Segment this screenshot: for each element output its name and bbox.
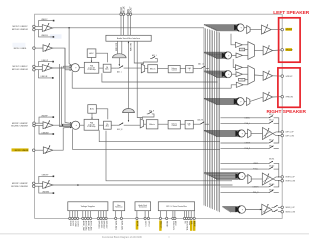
wire G6 output long to right bundle xyxy=(53,184,233,186)
wire G1 output to bundle xyxy=(53,27,204,29)
vcm label box M2 xyxy=(239,78,245,81)
summing mixer MR (right input mix) xyxy=(72,121,80,129)
adc ADC-R xyxy=(104,121,112,129)
pin HPLOUT xyxy=(281,28,284,31)
highlight HPLOUT label xyxy=(285,28,292,31)
svg-text:AVSS_DAC: AVSS_DAC xyxy=(84,221,87,232)
wire to LEFT_LO driver xyxy=(251,133,263,135)
svg-text:LINE2RM: LINE2RM xyxy=(42,132,50,134)
svg-text:MONO_LOP: MONO_LOP xyxy=(286,207,295,209)
wire AGC-R to PGA-R xyxy=(91,113,93,119)
pins audio clock xyxy=(136,211,138,218)
bypass LINE1LM xyxy=(39,70,53,78)
svg-text:LINE2RP: LINE2RP xyxy=(41,116,48,118)
wire route bus v4 xyxy=(65,69,72,71)
wire DAC_L1 to bundle xyxy=(205,68,209,70)
svg-text:SW_R2: SW_R2 xyxy=(269,166,274,168)
svg-text:MIC2LP / LINE2LP: MIC2LP / LINE2LP xyxy=(12,26,28,28)
svg-text:SW_L2: SW_L2 xyxy=(269,120,274,122)
agc AGC-R xyxy=(88,105,97,114)
svg-text:RESET: RESET xyxy=(166,221,168,228)
wire route bus v1 xyxy=(60,65,72,127)
summing mixer HPRCOM xyxy=(236,98,244,106)
svg-text:ADDR: ADDR xyxy=(193,221,196,227)
amp tri M1-A xyxy=(235,42,242,47)
wire PGA-R to ADC-R xyxy=(99,124,104,126)
svg-text:MIC2RP / LINE2RP: MIC2RP / LINE2RP xyxy=(12,123,29,125)
svg-text:SW_R3: SW_R3 xyxy=(269,184,274,186)
wire switch to DAC-L mux xyxy=(124,67,142,69)
svg-text:MIC3R / LINE3R: MIC3R / LINE3R xyxy=(15,150,29,152)
pin MIC2LP/LINE2LP xyxy=(33,25,36,28)
wire MR to PGA-R xyxy=(80,124,84,126)
pin MIC1RM/LINE1RM xyxy=(32,185,35,188)
svg-text:WCLK: WCLK xyxy=(124,6,126,13)
svg-text:HPLCOM: HPLCOM xyxy=(286,49,293,51)
driver HPRCOM xyxy=(263,93,273,102)
svg-text:AVDD_DAC: AVDD_DAC xyxy=(82,221,85,232)
amp tri M2-B xyxy=(232,73,236,75)
svg-text:BIAS_DAC: BIAS_DAC xyxy=(120,221,123,231)
wire driver to HPLOUT pin xyxy=(271,29,281,31)
svg-text:VCM: VCM xyxy=(240,79,243,81)
wire DAC_R1 to bundle xyxy=(205,123,209,125)
svg-text:LINE1LM: LINE1LM xyxy=(41,76,48,78)
op-amp G2 MIC3L input amp xyxy=(43,45,53,52)
pga PGA-L xyxy=(84,62,99,73)
pin HPROUT xyxy=(281,75,284,78)
wire ASBI to left ADC-mux dome xyxy=(117,41,119,54)
dac DAC-L xyxy=(186,65,193,72)
svg-text:IOVDD: IOVDD xyxy=(74,221,76,228)
pin MIC3L/LINE3L xyxy=(33,47,36,50)
svg-text:MIC2RM / LINE2RM: MIC2RM / LINE2RM xyxy=(11,126,28,128)
voltage supplies block xyxy=(68,202,108,211)
amp tri M2-C xyxy=(236,82,243,87)
wire DAC-L data down xyxy=(134,41,143,64)
svg-text:AGC: AGC xyxy=(90,108,95,111)
svg-text:SPI / I²C Serial Control Bus: SPI / I²C Serial Control Bus xyxy=(166,205,187,208)
wire to RIGHT_LO driver xyxy=(251,178,262,180)
svg-text:Bias: Bias xyxy=(117,205,120,207)
svg-text:AGC: AGC xyxy=(89,52,94,55)
wire G1 inputs xyxy=(35,25,42,27)
pin MONO_LOP xyxy=(281,206,284,209)
switch DAC_R1 xyxy=(193,123,198,125)
summing mixer MONO_LO xyxy=(238,206,246,214)
svg-text:SW_R4: SW_R4 xyxy=(269,190,274,192)
wire to HPLOUT driver xyxy=(250,29,261,31)
bypass LINE1RP xyxy=(39,176,53,183)
svg-text:Volume: Volume xyxy=(172,68,177,70)
svg-text:LINE2LM: LINE2LM xyxy=(41,35,48,37)
bypass LINE1RM xyxy=(39,186,53,193)
wire ADC data up into ASBI xyxy=(127,41,129,108)
op-amp G6 MIC1R input amp xyxy=(43,182,53,189)
pin MIC2RP/LINE2RP xyxy=(33,122,36,125)
pin BCLK (top) xyxy=(120,13,122,15)
mux dome right (record mux) xyxy=(123,109,135,113)
svg-text:MIC1RM / LINE1RM: MIC1RM / LINE1RM xyxy=(11,186,28,188)
driver HPLCOM xyxy=(263,46,273,55)
wire PGA-L bypass to outputs xyxy=(102,73,217,82)
red box right speaker xyxy=(278,68,300,107)
svg-text:Audio Serial Bus Interface: Audio Serial Bus Interface xyxy=(117,37,141,40)
driver RIGHT_LO xyxy=(262,173,273,185)
wire left-mix tap to outputs xyxy=(72,72,231,89)
wire right-mix tap to outputs xyxy=(73,129,220,149)
wire bundle verticals xyxy=(203,28,205,206)
bypass LINE2RP xyxy=(39,117,53,123)
svg-text:Effects: Effects xyxy=(150,67,156,70)
svg-text:SW_L4: SW_L4 xyxy=(269,145,274,147)
wire route bus v2 xyxy=(62,67,72,125)
pin RIGHT_LOP xyxy=(281,176,284,179)
pga PGA-R xyxy=(84,119,99,130)
svg-text:SELECT: SELECT xyxy=(159,221,161,229)
svg-text:Volume: Volume xyxy=(172,123,177,125)
svg-text:LINE1LP: LINE1LP xyxy=(42,60,48,62)
driver HPLOUT xyxy=(262,25,272,34)
driver MONO_LO xyxy=(262,204,272,215)
svg-text:MISO: MISO xyxy=(174,221,176,226)
svg-text:DVDD: DVDD xyxy=(69,221,71,227)
svg-text:BIAS_ADC: BIAS_ADC xyxy=(115,221,118,231)
pins bias reference xyxy=(115,211,117,218)
svg-text:MONO_LOM: MONO_LOM xyxy=(286,212,296,214)
wire switch to DAC-R mux xyxy=(124,124,141,126)
wire junction down to left mix xyxy=(69,28,72,66)
wire G5 input xyxy=(35,149,43,151)
wire PGA-L to ADC-L xyxy=(99,67,103,69)
chip boundary box xyxy=(35,14,283,218)
svg-text:Functional Block Diagram of AI: Functional Block Diagram of AIC3106 xyxy=(102,236,142,239)
svg-text:MIC2LM / LINE2LM: MIC2LM / LINE2LM xyxy=(12,29,28,31)
svg-text:LEFT_LOM: LEFT_LOM xyxy=(286,136,295,138)
wire to MONO_LO driver xyxy=(246,209,262,211)
pin MONO_LOM xyxy=(281,210,284,213)
svg-text:DRVSS2: DRVSS2 xyxy=(105,221,107,229)
svg-text:MCLK: MCLK xyxy=(136,221,138,227)
pin DIN (top) xyxy=(127,13,129,15)
pin MIC1LM/LINE1LM xyxy=(33,68,36,71)
wire LEFT_LO to pins xyxy=(273,132,281,134)
summing mixer HPLOUT xyxy=(237,24,244,31)
driver LEFT_LO xyxy=(263,128,273,140)
pin HPRCOM xyxy=(281,95,284,98)
fan ribbon into HPLOUT mix xyxy=(204,24,217,31)
svg-text:MIC1LM / LINE1LM: MIC1LM / LINE1LM xyxy=(12,69,28,71)
op-amp G5 MIC3R input amp xyxy=(43,147,53,154)
summing mixer LEFT_LO xyxy=(238,130,245,137)
wire EFF-L to VC-L xyxy=(158,68,169,70)
svg-text:MIC1RP / LINE1RP: MIC1RP / LINE1RP xyxy=(12,183,29,185)
amp tri M1-B xyxy=(232,54,236,56)
pin LEFT_LOM xyxy=(281,134,284,137)
wire AGC-L out right xyxy=(96,53,108,62)
pins serial control xyxy=(159,211,161,218)
wire G2 input xyxy=(35,47,43,49)
fan ribbon into RIGHT_LO mix xyxy=(204,173,217,180)
pin DOUT (top) xyxy=(129,13,131,15)
faint highlight near LINE1LM xyxy=(50,34,62,38)
fan ribbon into HPROUT mix xyxy=(204,71,217,78)
svg-text:MIC1LP / LINE1LP: MIC1LP / LINE1LP xyxy=(12,66,28,68)
svg-text:L: L xyxy=(189,70,190,72)
mux T1 DAC-L input xyxy=(141,64,144,73)
switch ADC_R xyxy=(111,124,117,126)
pin MIC1RP/LINE1RP xyxy=(32,182,35,185)
footer rule xyxy=(0,233,309,235)
volume control VC-R xyxy=(168,120,180,128)
wire G4 inputs xyxy=(35,122,43,124)
amp tri M2-A xyxy=(235,65,242,70)
svg-text:LINE2LP: LINE2LP xyxy=(41,19,47,21)
mux HPLCOM M1 xyxy=(248,42,255,60)
fan ribbon into HPRCOM mix xyxy=(204,98,217,105)
svg-text:SW_R1: SW_R1 xyxy=(269,158,274,160)
svg-text:Voltage Supplies: Voltage Supplies xyxy=(81,205,95,208)
switch DAC_L1 xyxy=(193,68,199,70)
audio clock generation block xyxy=(135,202,151,211)
svg-text:DOUT: DOUT xyxy=(131,6,133,13)
op-amp G1 MIC2L input amp xyxy=(42,25,52,32)
svg-text:GPIO2: GPIO2 xyxy=(147,221,149,227)
wire G5 output up-route xyxy=(53,127,72,150)
wire VC-R to DAC-R xyxy=(180,123,185,125)
pins voltage supplies xyxy=(69,211,71,218)
agc AGC-L xyxy=(87,49,96,58)
wire driver to HPRCOM pin xyxy=(273,96,281,98)
wire EFF-R to VC-R xyxy=(158,123,168,125)
bias reference block xyxy=(113,202,125,211)
wire right chain to line-outs xyxy=(106,131,232,181)
summing mixer ML (left input mix) xyxy=(71,64,79,72)
faint highlight near MIC3L xyxy=(12,43,25,47)
wire G3 inputs xyxy=(35,65,42,67)
wire T1 to EFF-L xyxy=(145,68,148,70)
pin MIC1LP/LINE1LP xyxy=(33,65,36,68)
svg-text:RIGHT_LOM: RIGHT_LOM xyxy=(286,181,296,183)
wire G4 output to right mix xyxy=(53,124,71,126)
svg-text:DVSS: DVSS xyxy=(71,221,73,227)
highlight MIC3R label xyxy=(12,148,29,151)
pin HPLCOM xyxy=(281,49,284,52)
svg-text:SCLK/SCL: SCLK/SCL xyxy=(172,221,174,230)
wire ML to PGA-L xyxy=(79,67,84,69)
summing mixer RIGHT_LO xyxy=(238,172,245,179)
dac DAC-R xyxy=(185,120,193,128)
adc ADC-L xyxy=(103,64,111,72)
bypass LINE2LP xyxy=(39,21,53,27)
fan ribbon into LEFT_LO mix xyxy=(204,130,217,137)
volume trapezoid LEFT_LO xyxy=(248,129,251,138)
svg-text:SW_L3: SW_L3 xyxy=(269,139,274,141)
op-amp G3 MIC1L input amp xyxy=(42,65,52,72)
effects EFF-R xyxy=(146,120,158,129)
volume trapezoid RIGHT_LO xyxy=(248,174,251,183)
svg-text:HPRCOM: HPRCOM xyxy=(286,97,294,99)
wire stub left mix arrows xyxy=(59,64,61,65)
wire dome-R stem xyxy=(128,113,130,122)
svg-text:GPIO1: GPIO1 xyxy=(144,221,146,227)
bypass LINE2LM xyxy=(39,30,53,37)
svg-text:LEFT SPEAKER: LEFT SPEAKER xyxy=(273,10,309,16)
svg-text:HPLOUT: HPLOUT xyxy=(286,29,292,31)
svg-text:AVDD_ADC: AVDD_ADC xyxy=(87,221,90,232)
wire to HPRCOM driver xyxy=(250,97,263,102)
effects EFF-L xyxy=(148,65,158,73)
wire G2 output down-route xyxy=(53,48,72,123)
audio serial bus interface U-ASBI xyxy=(106,35,151,41)
svg-text:DRVSS1: DRVSS1 xyxy=(100,221,102,229)
svg-text:MIC3L / LINE3L: MIC3L / LINE3L xyxy=(14,48,27,50)
pin WCLK (top) xyxy=(122,13,124,15)
bypass LINE2RM xyxy=(39,126,53,135)
svg-text:DRVDD1: DRVDD1 xyxy=(97,221,99,229)
wire VC-L to DAC-L xyxy=(180,68,186,70)
svg-text:SCL: SCL xyxy=(190,221,192,225)
svg-text:VCM: VCM xyxy=(241,49,244,51)
svg-text:IOVSS: IOVSS xyxy=(77,221,79,228)
svg-text:RIGHT_LOP: RIGHT_LOP xyxy=(286,177,295,179)
spi i2c serial control block xyxy=(158,202,194,211)
driver HPROUT xyxy=(263,71,273,80)
volume trapezoid HPRCOM xyxy=(247,98,250,106)
wire route bus v3 xyxy=(63,65,71,67)
mux dome left (record mux) xyxy=(113,54,127,58)
wire M2 to HPROUT driver xyxy=(254,74,263,77)
wire driver to HPROUT pin xyxy=(273,75,281,77)
pin MIC2LM/LINE2LM xyxy=(33,28,36,31)
pin MIC3R/LINE3R xyxy=(32,149,35,152)
wire ASBI dome second xyxy=(121,41,123,54)
mux T2 DAC-R input xyxy=(140,119,143,128)
wire DAC-R data down xyxy=(137,41,142,119)
vcm label box M1 xyxy=(239,48,244,51)
svg-text:Reference: Reference xyxy=(115,207,122,209)
summing mixer HPLCOM xyxy=(224,52,231,59)
op-amp G4 MIC2R input amp xyxy=(43,122,53,129)
switch MONO_LOM xyxy=(272,210,273,212)
svg-text:LINE1RM: LINE1RM xyxy=(42,192,50,194)
bypass LINE1LP xyxy=(39,62,53,67)
wire PGA-R bypass to outputs xyxy=(99,130,219,142)
pin MIC2RM/LINE2RM xyxy=(33,124,36,127)
pin RIGHT_LOM xyxy=(281,179,284,182)
svg-text:DRVDD2: DRVDD2 xyxy=(103,221,105,229)
wire RIGHT_LO to pins xyxy=(273,177,281,179)
svg-text:Effects: Effects xyxy=(149,123,155,126)
wire AGC-L to PGA-L xyxy=(91,57,93,62)
pin LEFT_LOP xyxy=(281,131,284,134)
switch MONO_LOP xyxy=(272,206,273,208)
svg-text:LEFT_LOP: LEFT_LOP xyxy=(286,132,294,134)
red box left speaker xyxy=(279,18,301,62)
highlight HPLCOM label xyxy=(285,48,292,51)
wire G6 inputs xyxy=(35,182,43,184)
svg-text:AVSS_ADC: AVSS_ADC xyxy=(90,221,93,232)
wire M1 to HPLCOM driver xyxy=(254,50,263,52)
volume control VC-L xyxy=(168,65,180,72)
svg-text:RIGHT SPEAKER: RIGHT SPEAKER xyxy=(267,109,307,115)
fan ribbon into MONO_LO mix xyxy=(222,206,231,213)
svg-text:HPROUT: HPROUT xyxy=(286,76,293,78)
svg-text:LINE1RP: LINE1RP xyxy=(42,175,49,177)
wire driver to HPLCOM pin xyxy=(273,49,281,52)
volume trapezoid HPLOUT xyxy=(247,26,250,34)
fan ribbon into HPLCOM mix xyxy=(204,52,217,59)
mux HPROUT M2 xyxy=(248,66,255,85)
wire AGC-R out right xyxy=(96,109,108,120)
wire T2 to EFF-R xyxy=(144,123,147,125)
summing mixer HPROUT xyxy=(224,71,231,78)
wire HPLCOM tap down xyxy=(233,59,235,67)
wire dome-L stem xyxy=(118,58,120,66)
switch ADC_L xyxy=(111,67,117,69)
wire G3 output to left mix xyxy=(53,67,71,69)
wire HPLOUT tap down to mux xyxy=(231,34,235,45)
